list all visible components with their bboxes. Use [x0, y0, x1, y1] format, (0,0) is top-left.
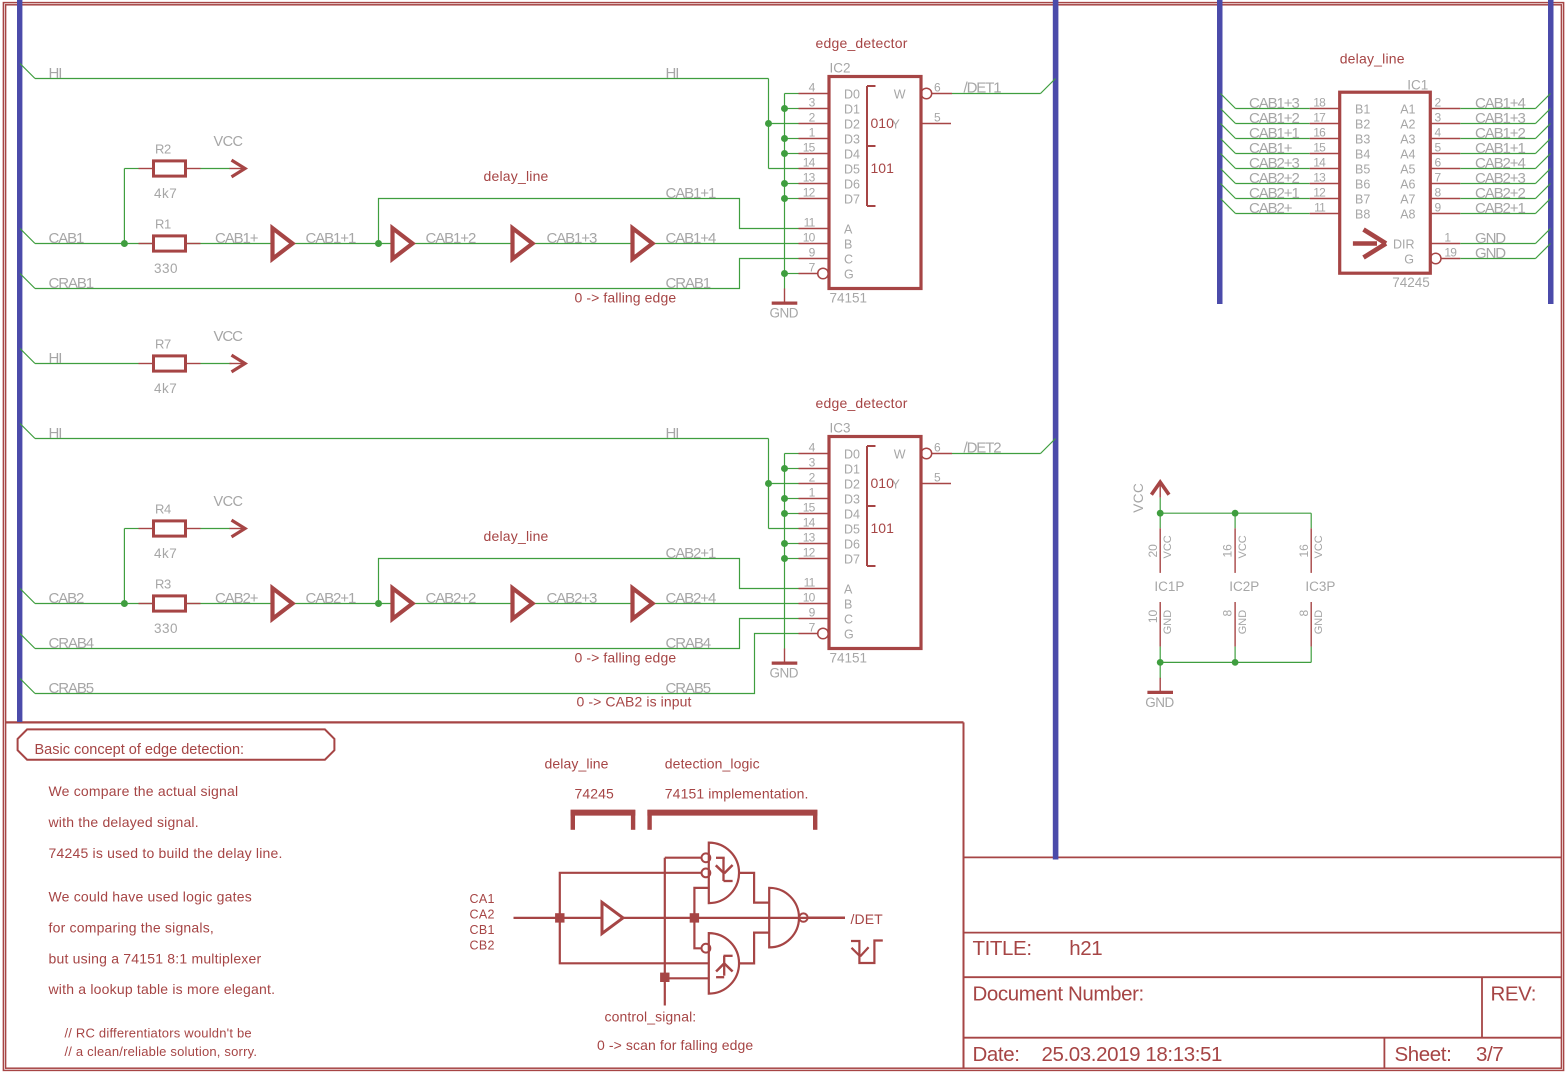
svg-text:D5: D5 — [844, 522, 860, 536]
svg-text:CAB2: CAB2 — [49, 590, 85, 607]
svg-text:16: 16 — [1221, 544, 1235, 558]
svg-text:15: 15 — [1313, 140, 1326, 154]
svg-text:HI: HI — [49, 425, 62, 442]
svg-text:8: 8 — [1297, 609, 1311, 616]
svg-text:D4: D4 — [844, 147, 860, 161]
svg-text:A: A — [844, 222, 853, 236]
svg-text:5: 5 — [934, 470, 941, 484]
svg-text:10: 10 — [803, 230, 816, 244]
svg-text:REV:: REV: — [1491, 983, 1537, 1006]
svg-text:A6: A6 — [1400, 177, 1415, 191]
svg-text:detection_logic: detection_logic — [665, 755, 760, 771]
svg-text:IC1: IC1 — [1407, 77, 1428, 92]
svg-text:7: 7 — [809, 620, 816, 634]
svg-text:VCC: VCC — [1313, 535, 1325, 558]
svg-text:CAB1+4: CAB1+4 — [666, 230, 716, 247]
svg-text:CAB2+: CAB2+ — [1249, 200, 1293, 217]
svg-text:B2: B2 — [1355, 117, 1370, 131]
svg-text:13: 13 — [803, 530, 816, 544]
svg-text:B3: B3 — [1355, 132, 1370, 146]
svg-text:Date:: Date: — [973, 1043, 1020, 1066]
svg-text:1: 1 — [809, 125, 816, 139]
svg-text:B: B — [844, 237, 852, 251]
svg-text:VCC: VCC — [214, 134, 243, 150]
svg-text:IC2P: IC2P — [1229, 579, 1259, 594]
svg-text:CA1: CA1 — [470, 892, 495, 906]
svg-text:11: 11 — [804, 575, 816, 589]
svg-text:74151: 74151 — [830, 651, 868, 666]
svg-text:D4: D4 — [844, 507, 860, 521]
svg-text:CAB1+2: CAB1+2 — [426, 230, 476, 247]
svg-text:IC3P: IC3P — [1305, 579, 1335, 594]
svg-text:4: 4 — [809, 440, 816, 454]
svg-text:0 -> scan for falling edge: 0 -> scan for falling edge — [597, 1037, 753, 1053]
svg-text:A1: A1 — [1400, 102, 1415, 116]
svg-text:GND: GND — [1237, 610, 1249, 635]
svg-text:VCC: VCC — [1237, 535, 1249, 558]
svg-text:R4: R4 — [155, 501, 171, 516]
svg-text:11: 11 — [1314, 200, 1326, 214]
svg-text:13: 13 — [1313, 170, 1326, 184]
svg-text:CAB1+1: CAB1+1 — [666, 185, 716, 202]
svg-text:12: 12 — [803, 185, 816, 199]
svg-text:9: 9 — [809, 605, 816, 619]
svg-text:D6: D6 — [844, 177, 860, 191]
svg-text:IC3: IC3 — [830, 421, 851, 436]
svg-text:12: 12 — [803, 545, 816, 559]
svg-text:74151 implementation.: 74151 implementation. — [665, 785, 809, 801]
svg-text:17: 17 — [1313, 110, 1326, 124]
svg-text:Basic concept of edge detectio: Basic concept of edge detection: — [35, 742, 245, 758]
svg-text:14: 14 — [1313, 155, 1326, 169]
svg-text:VCC: VCC — [214, 494, 243, 510]
svg-text:A7: A7 — [1400, 192, 1415, 206]
svg-text:We could have used logic gates: We could have used logic gates — [49, 888, 252, 904]
svg-text:HI: HI — [666, 65, 679, 82]
svg-text:D2: D2 — [844, 117, 860, 131]
svg-text:4k7: 4k7 — [154, 186, 177, 201]
svg-text:delay_line: delay_line — [545, 755, 609, 771]
svg-text:TITLE:: TITLE: — [973, 937, 1032, 960]
svg-text:G: G — [844, 267, 854, 281]
svg-text:330: 330 — [154, 621, 178, 636]
svg-text:with a lookup table is more el: with a lookup table is more elegant. — [48, 981, 276, 997]
svg-text:GND: GND — [1145, 695, 1174, 710]
svg-text:7: 7 — [1435, 170, 1442, 184]
svg-text:// a clean/reliable solution,: // a clean/reliable solution, sorry. — [65, 1044, 258, 1059]
svg-text:for comparing the signals,: for comparing the signals, — [49, 919, 215, 935]
svg-text:6: 6 — [1435, 155, 1442, 169]
svg-text:D0: D0 — [844, 87, 860, 101]
svg-text:15: 15 — [803, 500, 816, 514]
svg-text:1: 1 — [1444, 230, 1451, 244]
svg-text:Document Number:: Document Number: — [973, 983, 1144, 1006]
svg-text:R3: R3 — [155, 576, 171, 591]
svg-text:3: 3 — [809, 455, 816, 469]
svg-text:3/7: 3/7 — [1476, 1043, 1503, 1066]
svg-text:CAB1+3: CAB1+3 — [547, 230, 597, 247]
svg-text:B5: B5 — [1355, 162, 1370, 176]
svg-text:25.03.2019 18:13:51: 25.03.2019 18:13:51 — [1042, 1043, 1223, 1066]
svg-text:CB1: CB1 — [470, 923, 495, 937]
svg-text:13: 13 — [803, 170, 816, 184]
svg-text:B1: B1 — [1355, 102, 1370, 116]
svg-text:10: 10 — [1146, 609, 1160, 623]
svg-text:0 -> falling edge: 0 -> falling edge — [575, 289, 677, 305]
svg-text:CAB2+1: CAB2+1 — [306, 590, 356, 607]
svg-text:C: C — [844, 252, 853, 266]
svg-text:74151: 74151 — [830, 291, 868, 306]
svg-text:/DET1: /DET1 — [964, 80, 1002, 97]
svg-text:3: 3 — [809, 95, 816, 109]
svg-text:9: 9 — [809, 245, 816, 259]
svg-text:10: 10 — [803, 590, 816, 604]
svg-text:2: 2 — [809, 110, 816, 124]
svg-text:D7: D7 — [844, 192, 860, 206]
svg-text:B8: B8 — [1355, 207, 1370, 221]
svg-text:control_signal:: control_signal: — [605, 1009, 697, 1025]
svg-text:GND: GND — [1475, 245, 1506, 262]
svg-text:A2: A2 — [1400, 117, 1415, 131]
svg-text:330: 330 — [154, 261, 178, 276]
svg-text:14: 14 — [803, 155, 816, 169]
svg-text:A5: A5 — [1400, 162, 1415, 176]
svg-text:CB2: CB2 — [470, 939, 495, 953]
svg-text:B6: B6 — [1355, 177, 1370, 191]
svg-text:A: A — [844, 582, 853, 596]
svg-text:16: 16 — [1313, 125, 1326, 139]
svg-text:IC1P: IC1P — [1154, 579, 1184, 594]
svg-text:delay_line: delay_line — [1340, 51, 1405, 67]
svg-text:A8: A8 — [1400, 207, 1415, 221]
svg-text:CRAB5: CRAB5 — [49, 680, 94, 697]
svg-text:19: 19 — [1444, 245, 1457, 259]
svg-text:2: 2 — [1435, 95, 1442, 109]
svg-text:GND: GND — [770, 666, 799, 681]
svg-text:CAB2+2: CAB2+2 — [426, 590, 476, 607]
svg-text:edge_detector: edge_detector — [816, 35, 908, 51]
svg-text:6: 6 — [934, 440, 941, 454]
svg-text:1: 1 — [809, 485, 816, 499]
svg-text:4: 4 — [809, 80, 816, 94]
svg-text:HI: HI — [49, 65, 62, 82]
svg-text:20: 20 — [1146, 544, 1160, 558]
svg-text:CAB1: CAB1 — [49, 230, 85, 247]
svg-text:CRAB1: CRAB1 — [49, 275, 94, 292]
svg-text:/DET2: /DET2 — [964, 440, 1002, 457]
svg-text:2: 2 — [809, 470, 816, 484]
svg-text:7: 7 — [809, 260, 816, 274]
svg-text:CAB2+1: CAB2+1 — [1475, 200, 1525, 217]
svg-text:Sheet:: Sheet: — [1395, 1043, 1452, 1066]
svg-text:We compare the actual signal: We compare the actual signal — [49, 783, 239, 799]
svg-text:delay_line: delay_line — [484, 528, 549, 544]
svg-text:CAB2+3: CAB2+3 — [547, 590, 597, 607]
svg-text:R1: R1 — [155, 216, 171, 231]
svg-text:W: W — [894, 447, 906, 461]
svg-text:4k7: 4k7 — [154, 381, 177, 396]
svg-text:DIR: DIR — [1393, 237, 1415, 251]
svg-text:HI: HI — [666, 425, 679, 442]
svg-text:with the delayed signal.: with the delayed signal. — [48, 814, 199, 830]
svg-text:// RC differentiators wouldn't: // RC differentiators wouldn't be — [65, 1026, 252, 1041]
svg-text:R7: R7 — [155, 336, 171, 351]
svg-text:0 -> CAB2 is input: 0 -> CAB2 is input — [577, 694, 692, 710]
svg-text:D6: D6 — [844, 537, 860, 551]
svg-text:CAB2+4: CAB2+4 — [666, 590, 716, 607]
svg-text:GND: GND — [770, 306, 799, 321]
svg-text:delay_line: delay_line — [484, 168, 549, 184]
svg-text:C: C — [844, 612, 853, 626]
svg-text:D5: D5 — [844, 162, 860, 176]
svg-text:12: 12 — [1313, 185, 1326, 199]
svg-text:W: W — [894, 87, 906, 101]
svg-text:5: 5 — [1435, 140, 1442, 154]
svg-text:CAB1+1: CAB1+1 — [306, 230, 356, 247]
svg-text:VCC: VCC — [214, 328, 244, 345]
svg-text:14: 14 — [803, 515, 816, 529]
svg-text:edge_detector: edge_detector — [816, 395, 908, 411]
svg-text:74245: 74245 — [1392, 275, 1430, 290]
svg-text:D3: D3 — [844, 492, 860, 506]
svg-text:8: 8 — [1221, 609, 1235, 616]
svg-text:Y: Y — [891, 117, 900, 131]
svg-text:Y: Y — [891, 477, 900, 491]
svg-text:CRAB4: CRAB4 — [49, 635, 94, 652]
svg-text:VCC: VCC — [1162, 535, 1174, 558]
svg-text:B: B — [844, 597, 852, 611]
svg-text:D1: D1 — [844, 102, 860, 116]
svg-text:A3: A3 — [1400, 132, 1415, 146]
svg-text:4k7: 4k7 — [154, 546, 177, 561]
svg-text:0 -> falling edge: 0 -> falling edge — [575, 649, 677, 665]
svg-text:101: 101 — [871, 160, 895, 176]
svg-text:B4: B4 — [1355, 147, 1370, 161]
svg-text:but using a 74151 8:1 multiple: but using a 74151 8:1 multiplexer — [49, 950, 262, 966]
svg-text:8: 8 — [1435, 185, 1442, 199]
svg-text:D1: D1 — [844, 462, 860, 476]
svg-text:CAB2+1: CAB2+1 — [666, 545, 716, 562]
svg-text:GND: GND — [1162, 610, 1174, 635]
svg-text:CAB1+: CAB1+ — [215, 230, 259, 247]
svg-text:G: G — [844, 627, 854, 641]
svg-text:5: 5 — [934, 110, 941, 124]
svg-text:VCC: VCC — [1131, 483, 1146, 513]
svg-text:IC2: IC2 — [830, 61, 851, 76]
svg-text:15: 15 — [803, 140, 816, 154]
svg-text:D7: D7 — [844, 552, 860, 566]
svg-text:D3: D3 — [844, 132, 860, 146]
svg-text:6: 6 — [934, 80, 941, 94]
svg-text:4: 4 — [1435, 125, 1442, 139]
svg-text:3: 3 — [1435, 110, 1442, 124]
svg-text:18: 18 — [1313, 95, 1326, 109]
svg-text:11: 11 — [804, 215, 816, 229]
svg-text:74245: 74245 — [575, 785, 615, 801]
svg-text:74245 is used to build the del: 74245 is used to build the delay line. — [49, 845, 283, 861]
svg-text:h21: h21 — [1069, 937, 1102, 960]
svg-text:B7: B7 — [1355, 192, 1370, 206]
svg-text:GND: GND — [1313, 610, 1325, 635]
svg-text:HI: HI — [49, 350, 62, 367]
svg-text:A4: A4 — [1400, 147, 1415, 161]
svg-text:CA2: CA2 — [470, 908, 495, 922]
svg-text:D0: D0 — [844, 447, 860, 461]
svg-text:G: G — [1404, 252, 1414, 266]
svg-text:/DET: /DET — [851, 911, 884, 927]
svg-text:R2: R2 — [155, 141, 171, 156]
svg-text:D2: D2 — [844, 477, 860, 491]
svg-text:CAB2+: CAB2+ — [215, 590, 259, 607]
svg-text:101: 101 — [871, 520, 895, 536]
svg-text:9: 9 — [1435, 200, 1442, 214]
svg-text:16: 16 — [1297, 544, 1311, 558]
